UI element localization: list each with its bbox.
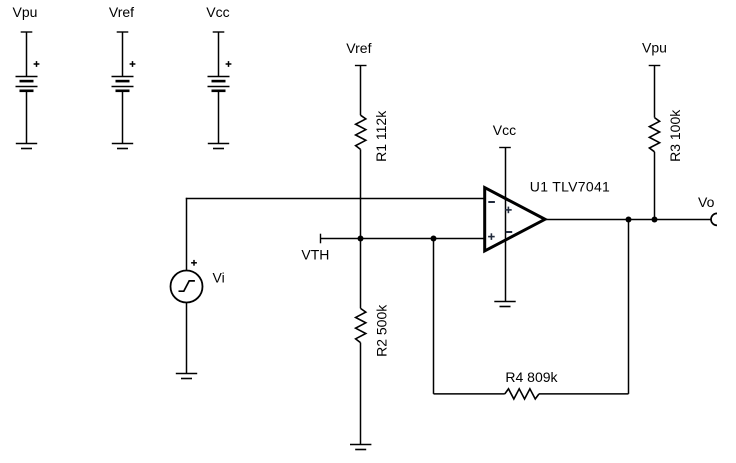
svg-text:R2 500k: R2 500k <box>373 304 389 357</box>
node Vref (net terminal above R1) <box>346 40 371 65</box>
svg-text:R1 112k: R1 112k <box>373 110 389 162</box>
wire Vref to R1 <box>360 66 362 116</box>
plus mark <box>226 63 232 65</box>
resistor R3 100k <box>649 109 683 162</box>
wire VTH to op-amp non-inverting input <box>321 238 485 240</box>
plus mark <box>130 63 136 65</box>
source circle <box>171 271 203 303</box>
wire Vi to ground <box>186 303 188 374</box>
ground (below R2) <box>350 445 371 450</box>
svg-text:Vpu: Vpu <box>642 39 667 55</box>
source Vi <box>171 260 225 303</box>
terminal tick <box>499 147 511 149</box>
wire <box>122 32 124 77</box>
terminal tick Vpu <box>21 31 33 33</box>
output port arc <box>711 213 717 225</box>
wire op-amp output to Vo port <box>546 219 711 221</box>
battery Vcc (left source 3) <box>206 4 231 148</box>
node Vpu (pull-up supply terminal) <box>642 39 667 65</box>
svg-text:Vpu: Vpu <box>13 4 38 20</box>
resistor R4 809k <box>505 369 559 399</box>
battery Vpu (left source 1) <box>13 4 40 148</box>
ground (below Vi) <box>176 374 197 379</box>
battery plates <box>112 76 134 78</box>
svg-text:R4 809k: R4 809k <box>505 369 558 385</box>
non-inverting input plus mark <box>488 233 495 240</box>
inverting input minus mark <box>488 201 495 203</box>
wire Vi to op-amp inverting input <box>186 198 485 200</box>
wire <box>26 32 28 77</box>
wire <box>122 91 124 144</box>
svg-text:VTH: VTH <box>301 247 329 263</box>
wire feedback up to output <box>628 220 630 394</box>
wire Vpu to R3 <box>654 66 656 118</box>
terminal tick Vcc <box>213 31 225 33</box>
wire down to Vi source <box>186 198 188 271</box>
plus mark <box>191 262 197 264</box>
ground <box>16 143 37 145</box>
node Vcc (op-amp supply) <box>493 122 516 148</box>
terminal tick Vref <box>117 31 129 33</box>
battery Vref (left source 2) <box>109 4 135 148</box>
junction dot (R3 pull-up) <box>652 217 658 223</box>
wire <box>218 32 220 77</box>
triangle body <box>485 188 545 251</box>
plus mark <box>34 63 40 65</box>
terminal tick <box>355 65 367 67</box>
ramp symbol <box>179 281 195 291</box>
battery plates <box>208 76 230 78</box>
wire Vcc through op-amp to ground <box>505 148 507 302</box>
svg-text:Vref: Vref <box>346 40 371 56</box>
ground (op-amp supply return) <box>494 302 515 307</box>
junction dot (feedback from output) <box>626 217 632 223</box>
node VTH <box>301 234 329 263</box>
terminal tick VTH <box>320 234 322 244</box>
svg-text:Vcc: Vcc <box>493 122 516 138</box>
wire R2 to ground <box>360 343 362 445</box>
wire feedback tap down <box>433 239 435 394</box>
node Vo (output port) <box>698 194 717 225</box>
svg-text:U1 TLV7041: U1 TLV7041 <box>530 178 610 194</box>
inner minus mark (lower) <box>506 231 512 233</box>
resistor R2 500k <box>356 304 390 357</box>
wire R1 to R2 (through VTH node) <box>360 149 362 308</box>
wire feedback bottom left <box>434 393 505 395</box>
svg-text:Vcc: Vcc <box>206 4 229 20</box>
wire R3 to output node <box>654 152 656 220</box>
svg-text:Vo: Vo <box>698 194 715 210</box>
op-amp U1 TLV7041 <box>485 178 610 251</box>
wire <box>218 91 220 144</box>
wire feedback bottom right <box>539 393 629 395</box>
ground <box>112 143 133 145</box>
junction dot (VTH / R1-R2 divider) <box>358 236 364 242</box>
inner plus mark (upper) <box>505 207 512 214</box>
junction dot (feedback tap) <box>431 236 437 242</box>
svg-text:Vi: Vi <box>213 270 225 286</box>
svg-text:R3 100k: R3 100k <box>667 109 683 162</box>
ground <box>208 143 229 145</box>
battery plates <box>16 76 38 78</box>
resistor R1 112k <box>356 110 389 162</box>
svg-text:Vref: Vref <box>109 4 134 20</box>
terminal tick <box>649 65 661 67</box>
wire <box>26 91 28 144</box>
